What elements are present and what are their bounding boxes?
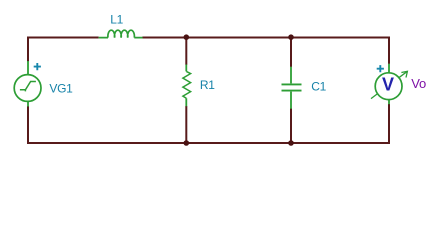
wire C1 branch top: [290, 37, 292, 67]
voltmeter U1 arrowhead: [401, 71, 407, 77]
wire bottom rail with both corners: [28, 104, 389, 143]
wire R1 branch bottom: [185, 106, 187, 144]
svg-text:R1: R1: [200, 78, 215, 92]
voltmeter U1 body: [375, 73, 402, 100]
inductor L1 leads: [99, 37, 143, 39]
junction dot top R1 node: [184, 34, 190, 40]
junction dot bottom R1 node: [184, 140, 190, 146]
svg-text:C1: C1: [311, 80, 326, 94]
wire top rail left segment with left corner: [28, 38, 99, 62]
voltage source VG1 body: [14, 75, 41, 102]
svg-text:VG1: VG1: [49, 82, 73, 96]
junction dot bottom C1 node: [288, 140, 294, 146]
resistor R1 zigzag: [183, 71, 191, 98]
voltage source VG1 step waveform symbol: [20, 82, 36, 92]
voltage source VG1 plus polarity mark: [34, 63, 41, 70]
capacitor C1 top plate: [282, 83, 302, 85]
voltmeter U1 arrow: [371, 71, 407, 98]
wire R1 branch top: [185, 37, 187, 65]
voltage source VG1 leads: [27, 61, 29, 107]
voltmeter U1 leads: [388, 64, 390, 105]
inductor L1 coils: [108, 30, 135, 37]
svg-text:V: V: [382, 74, 394, 94]
wire top rail right segment with right corner: [142, 38, 389, 64]
capacitor C1 leads: [290, 67, 292, 109]
svg-text:Vo: Vo: [411, 76, 426, 91]
resistor R1 leads: [185, 65, 187, 107]
junction dot top C1 node: [288, 34, 294, 40]
voltmeter U1 plus polarity mark: [377, 65, 384, 72]
wire C1 branch bottom: [290, 109, 292, 145]
capacitor C1 bottom plate: [282, 90, 302, 92]
svg-text:L1: L1: [110, 12, 123, 26]
